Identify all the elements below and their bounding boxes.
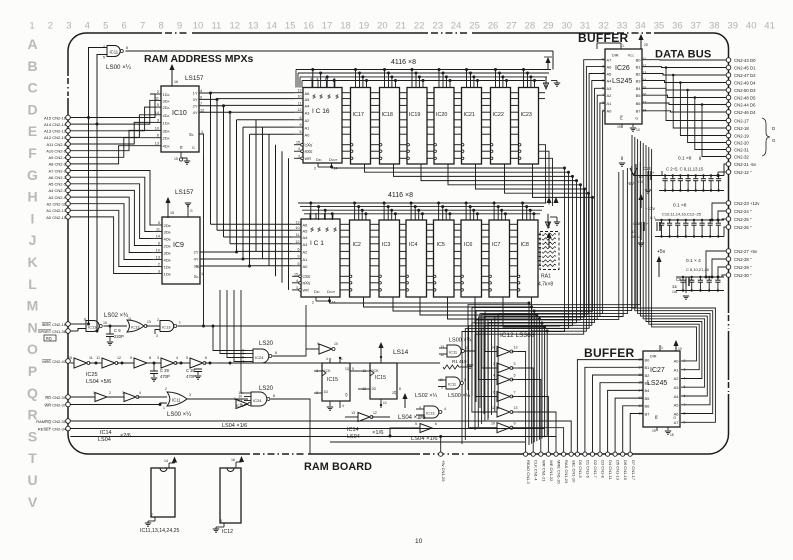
svg-text:CLK CN1-4: CLK CN1-4 [534, 460, 539, 481]
bottom IC block IC11,13,14,24,25 [151, 468, 175, 517]
down arrow -5v [630, 168, 637, 175]
svg-text:≸: ≸ [327, 94, 331, 100]
svg-text:IC4: IC4 [409, 242, 417, 248]
up arrow +5v [658, 258, 660, 277]
svg-text:A0: A0 [305, 132, 311, 137]
wire bank1 to CN2-21 [724, 164, 726, 176]
svg-text:L: L [28, 276, 37, 292]
svg-text:18: 18 [340, 21, 351, 32]
svg-text:LS245: LS245 [612, 78, 632, 85]
junction dot left bus [87, 116, 90, 119]
svg-text:A0: A0 [607, 109, 613, 114]
svg-text:11: 11 [155, 96, 159, 100]
row1 staircase verticals down + left bends to IC12 inputs [462, 168, 565, 444]
RAM IC22 (4116) [491, 88, 511, 165]
svg-text:C 28: C 28 [186, 368, 196, 373]
svg-text:2DA: 2DA [163, 136, 170, 141]
svg-text:5: 5 [158, 221, 160, 225]
svg-text:14: 14 [334, 167, 338, 171]
svg-text:R̅Q̅: R̅Q̅ [45, 337, 52, 341]
svg-text:CN2-47 D2: CN2-47 D2 [734, 73, 756, 78]
svg-text:A9 CN2-4: A9 CN2-4 [48, 155, 66, 160]
svg-text:LS00 ×¼: LS00 ×¼ [106, 64, 132, 71]
svg-text:A6: A6 [303, 223, 309, 228]
svg-text:C10,11,14,16,C12~25: C10,11,14,16,C12~25 [662, 212, 702, 217]
NAND gate IC11 (top left) [107, 46, 120, 57]
flip-flop IC15b [370, 363, 397, 399]
svg-text:IC2: IC2 [353, 242, 361, 248]
svg-text:LS157: LS157 [185, 75, 204, 82]
svg-text:CN2-20: CN2-20 [734, 141, 749, 146]
svg-text:10: 10 [383, 401, 387, 405]
svg-text:CN2-30 ″: CN2-30 ″ [734, 273, 752, 278]
svg-text:A5: A5 [674, 403, 680, 408]
svg-text:13: 13 [147, 320, 151, 324]
svg-text:A0: A0 [303, 264, 309, 269]
svg-text:2DA: 2DA [163, 105, 170, 110]
svg-text:1: 1 [661, 346, 663, 350]
svg-text:A2: A2 [674, 376, 680, 381]
svg-text:/16: /16 [672, 290, 677, 294]
svg-text:A6 CN2-3: A6 CN2-3 [48, 175, 66, 180]
svg-text:READ CN1-3: READ CN1-3 [526, 460, 531, 485]
svg-text:8: 8 [399, 387, 401, 391]
svg-text:2Y: 2Y [193, 103, 198, 108]
svg-text:1: 1 [163, 406, 165, 410]
svg-text:RAMR̅Q̅ CN2-35: RAMR̅Q̅ CN2-35 [36, 419, 67, 424]
svg-text:T: T [28, 450, 37, 466]
svg-text:A7: A7 [607, 58, 613, 63]
svg-text:B3: B3 [636, 78, 642, 83]
svg-text:LS00 ×¼: LS00 ×¼ [167, 412, 192, 418]
svg-text:A7 CN2-1: A7 CN2-1 [48, 168, 66, 173]
svg-text:38: 38 [709, 21, 720, 32]
svg-text:CN2-31: CN2-31 [734, 148, 749, 153]
svg-text:IC11,13,14,24,25: IC11,13,14,24,25 [140, 528, 180, 534]
inverter IC12 gate 4 [497, 392, 510, 402]
svg-text:6: 6 [158, 242, 160, 246]
FF1 top pins [329, 358, 331, 363]
row1 control lines with bubbles [342, 144, 351, 146]
svg-text:F: F [28, 145, 37, 161]
svg-text:DATA BUS: DATA BUS [655, 49, 711, 61]
wires IC26 outputs to CN2 data terminals [642, 59, 726, 61]
svg-text:IC12: IC12 [222, 529, 233, 535]
svg-text:A2: A2 [303, 250, 309, 255]
svg-text:≸: ≸ [310, 227, 314, 233]
svg-text:CN2-29 ″: CN2-29 ″ [734, 265, 752, 270]
svg-text:B: B [27, 58, 37, 74]
svg-text:+: + [690, 278, 692, 282]
svg-text:A5: A5 [305, 97, 311, 102]
svg-text:3: 3 [684, 368, 686, 372]
power arrow IC27 [675, 342, 677, 351]
grid row letters A-V [27, 36, 39, 510]
bottom IC block IC12 [220, 468, 241, 523]
svg-text:16: 16 [174, 80, 178, 84]
svg-text:10: 10 [491, 422, 495, 426]
svg-text:+5v: +5v [657, 249, 666, 255]
svg-text:≸: ≸ [335, 94, 339, 100]
wire long bottom +5v rail [70, 436, 556, 438]
capacitor bank 2 (+12V) [655, 219, 724, 221]
svg-text:9: 9 [514, 422, 516, 426]
svg-text:IC20: IC20 [436, 112, 447, 118]
svg-text:MRE CN2-40: MRE CN2-40 [42, 359, 67, 364]
svg-text:35: 35 [654, 21, 665, 32]
svg-text:4: 4 [493, 374, 495, 378]
svg-text:≸: ≸ [333, 227, 337, 233]
svg-text:A2: A2 [305, 118, 311, 123]
power arrow IC9 pin 16 [167, 199, 169, 218]
svg-text:WR: WR [303, 289, 310, 293]
svg-text:A10 CN2-6: A10 CN2-6 [46, 149, 67, 154]
svg-text:28: 28 [525, 21, 536, 32]
svg-text:10: 10 [415, 538, 423, 545]
control interconnect row1 to row2 [539, 145, 546, 203]
svg-text:CN2-45 D1: CN2-45 D1 [734, 66, 756, 71]
inverter IC14c [420, 424, 432, 433]
svg-text:LS157: LS157 [175, 189, 194, 196]
RAMRQ RESET terminals [66, 419, 71, 424]
svg-text:RAM BOARD: RAM BOARD [304, 461, 372, 473]
svg-text:7: 7 [151, 513, 153, 517]
svg-text:IC6: IC6 [464, 242, 472, 248]
svg-text:LS20: LS20 [259, 341, 274, 347]
RAM IC23 (4116) [519, 88, 539, 165]
svg-text:+: + [663, 222, 665, 226]
inverter IC14a (above IC15) [319, 344, 332, 354]
capacitor C28 470P [197, 363, 199, 370]
svg-text:3Y: 3Y [193, 97, 198, 102]
svg-text:B0: B0 [645, 357, 651, 362]
svg-text:B2: B2 [645, 373, 651, 378]
capacitor bank 3 (+5V) [676, 276, 724, 278]
svg-text:B0: B0 [636, 58, 642, 63]
svg-text:LS245: LS245 [647, 380, 667, 387]
svg-text:LS00 ×¼: LS00 ×¼ [448, 393, 471, 399]
wire IC9 outputs into bus [200, 251, 237, 253]
svg-text:A5: A5 [607, 71, 613, 76]
svg-text:4: 4 [298, 147, 300, 151]
svg-text:≸: ≸ [312, 94, 316, 100]
wire RA1 feed [548, 222, 550, 228]
svg-text:IC13: IC13 [162, 325, 171, 330]
svg-text:8: 8 [464, 378, 466, 382]
svg-text:CN2-17: CN2-17 [734, 119, 749, 124]
svg-text:≸: ≸ [319, 94, 323, 100]
svg-text:5: 5 [298, 262, 300, 266]
svg-text:10: 10 [636, 128, 640, 132]
svg-text:1: 1 [201, 272, 203, 276]
power arrow LS14 [380, 344, 382, 361]
power arrow IC26 [640, 36, 642, 49]
svg-text:8: 8 [220, 519, 222, 523]
svg-text:6: 6 [435, 422, 437, 426]
svg-text:CN2-23 +12v: CN2-23 +12v [734, 201, 760, 206]
svg-text:2DB: 2DB [164, 244, 171, 249]
svg-text:9: 9 [300, 123, 302, 127]
svg-text:8: 8 [149, 356, 151, 360]
svg-text:IC24: IC24 [253, 398, 262, 403]
svg-text:A3: A3 [607, 86, 613, 91]
power arrow mid [404, 395, 406, 408]
svg-text:CN2-49 D4: CN2-49 D4 [734, 81, 756, 86]
svg-text:A3 CN2-9: A3 CN2-9 [48, 195, 66, 200]
svg-text:G: G [673, 416, 676, 420]
svg-text:5: 5 [300, 130, 302, 134]
wire IC24b output right and down [271, 399, 311, 454]
svg-text:C 1: C 1 [650, 216, 656, 220]
svg-text:4DA: 4DA [163, 144, 170, 149]
MRE terminal [66, 359, 71, 364]
inverter IC25 gate 2 [102, 358, 115, 368]
svg-text:2: 2 [312, 301, 314, 305]
svg-text:2Y: 2Y [194, 250, 199, 255]
wire bank2 to CN2 +12v group [726, 201, 731, 206]
svg-text:10: 10 [156, 249, 160, 253]
row2 control lines with bubbles [340, 275, 350, 277]
svg-text:IC3: IC3 [382, 242, 390, 248]
svg-text:A11 CN2-8: A11 CN2-8 [47, 142, 67, 147]
svg-text:16: 16 [231, 458, 235, 462]
svg-text:5: 5 [103, 21, 108, 32]
svg-text:5: 5 [415, 422, 417, 426]
svg-text:A7: A7 [674, 420, 680, 425]
FF2 top/bottom pins [380, 357, 382, 363]
svg-text:×1/6: ×1/6 [372, 430, 383, 436]
inverter IC25f [236, 400, 248, 409]
NAND gate IC13a [86, 321, 99, 332]
svg-text:11: 11 [465, 346, 469, 350]
wire IC24a output to IC14a inverter [273, 349, 307, 356]
svg-text:1: 1 [341, 357, 343, 361]
wire bank3 to CN2 +5v group [726, 249, 731, 254]
svg-text:LS04 ×1/6: LS04 ×1/6 [398, 415, 426, 421]
svg-text:A5 CN2-5: A5 CN2-5 [48, 182, 66, 187]
svg-text:3: 3 [189, 393, 191, 397]
svg-text:13: 13 [296, 220, 300, 224]
svg-text:29: 29 [543, 21, 554, 32]
svg-text:10: 10 [155, 126, 159, 130]
svg-text:A6: A6 [305, 91, 311, 96]
svg-text:3: 3 [296, 286, 298, 290]
RAM IC1 (4116) [301, 219, 340, 297]
row1 rail left elbows [295, 70, 297, 88]
svg-text:A2: A2 [607, 93, 613, 98]
svg-text:9: 9 [130, 356, 132, 360]
svg-text:11: 11 [156, 228, 160, 232]
svg-text:1: 1 [29, 21, 34, 32]
wire drops to LS20 IC24b inputs [241, 290, 244, 393]
svg-text:1: 1 [93, 391, 95, 395]
svg-text:IC23: IC23 [521, 112, 532, 118]
svg-text:IC14: IC14 [347, 427, 359, 433]
svg-text:12: 12 [200, 108, 204, 112]
svg-text:CN2-18: CN2-18 [734, 126, 749, 131]
svg-text:2: 2 [157, 318, 159, 322]
svg-text:4116 ×8: 4116 ×8 [388, 192, 413, 199]
svg-text:2: 2 [165, 387, 167, 391]
svg-text:B6: B6 [645, 404, 651, 409]
svg-text:13: 13 [155, 142, 159, 146]
svg-text:MRE CN1-20: MRE CN1-20 [557, 460, 562, 485]
svg-text:CN2-19: CN2-19 [734, 134, 749, 139]
svg-text:11: 11 [96, 356, 100, 360]
svg-text:15: 15 [174, 157, 178, 161]
svg-text:C 9: C 9 [114, 328, 121, 333]
svg-text:B1: B1 [645, 365, 651, 370]
row2 data output staircase [330, 301, 530, 445]
svg-text:2: 2 [109, 391, 111, 395]
svg-text:2D: 2D [372, 387, 377, 391]
svg-text:1: 1 [622, 44, 624, 48]
svg-text:IC11: IC11 [449, 350, 458, 355]
svg-text:12: 12 [298, 108, 302, 112]
svg-text:SA: SA [189, 132, 194, 137]
svg-text:E: E [28, 123, 37, 139]
svg-text:B2: B2 [636, 71, 642, 76]
svg-text:16: 16 [643, 93, 647, 97]
wire IC13c output right [178, 325, 561, 327]
inverter IC25 gate 4 [161, 358, 174, 368]
inverter IC12 gate 5 [497, 407, 510, 417]
svg-text:WR: WR [305, 157, 312, 161]
svg-text:K: K [27, 254, 37, 270]
svg-text:D2 CN1-7: D2 CN1-7 [593, 460, 598, 479]
IC12 outputs descend to CN1 terminals [518, 352, 526, 453]
svg-text:1DA: 1DA [163, 92, 170, 97]
wire IC11 inputs from left bus [89, 48, 108, 325]
svg-text:DOUT: DOUT [327, 290, 336, 294]
svg-text:SEL CN1-10: SEL CN1-10 [572, 460, 577, 483]
svg-text:RES̅E̅T̅ CN2-34: RES̅E̅T̅ CN2-34 [38, 427, 67, 432]
svg-text:C: C [27, 80, 37, 96]
flip-flop IC15a [322, 363, 350, 401]
RD WR terminals [66, 395, 71, 400]
svg-text:G: G [192, 146, 195, 150]
CN2 ground group terminals [726, 118, 731, 123]
svg-text:R1 410: R1 410 [452, 359, 467, 364]
svg-text:8: 8 [273, 394, 275, 398]
svg-text:2: 2 [158, 263, 160, 267]
wire bundle address inputs to IC10 [70, 94, 155, 118]
svg-text:IC15: IC15 [375, 375, 386, 381]
svg-text:14: 14 [266, 21, 277, 32]
riser RAMRQ to SEL terminal [560, 421, 571, 452]
svg-text:10: 10 [334, 342, 338, 346]
svg-text:470P: 470P [186, 374, 196, 379]
svg-text:DOUT: DOUT [329, 158, 338, 162]
RAM IC3 (4116) [379, 220, 400, 297]
RAM IC21 (4116) [462, 88, 482, 165]
RAM IC17 (4116) [351, 88, 371, 165]
svg-text:41: 41 [764, 21, 775, 32]
svg-text:A6: A6 [607, 64, 613, 69]
svg-text:IC25: IC25 [236, 404, 244, 408]
svg-text:A: A [27, 36, 37, 52]
svg-text:IC19: IC19 [409, 112, 420, 118]
svg-text:12: 12 [373, 411, 377, 415]
svg-text:13: 13 [351, 411, 355, 415]
svg-text:CN2-44 D6: CN2-44 D6 [734, 103, 756, 108]
svg-text:IC11: IC11 [172, 398, 181, 403]
svg-text:G: G [190, 209, 193, 213]
svg-text:IC14: IC14 [100, 430, 112, 436]
row1 inter-chip address lines [342, 92, 351, 94]
RAM IC6 (4116) [461, 220, 482, 297]
svg-text:CN2-48 D5: CN2-48 D5 [734, 96, 756, 101]
svg-text:14: 14 [156, 235, 160, 239]
electrolytic C8 [682, 273, 684, 282]
svg-text:×2/6: ×2/6 [120, 433, 131, 439]
svg-text:CN2-50 D3: CN2-50 D3 [734, 88, 756, 93]
bracket D G [762, 118, 770, 156]
svg-text:B5: B5 [645, 396, 651, 401]
FF1 bottom pins [329, 401, 331, 406]
svg-text:O: O [27, 341, 38, 357]
svg-text:3: 3 [298, 154, 300, 158]
RAM IC20 (4116) [434, 88, 454, 165]
svg-text:A1: A1 [674, 368, 680, 373]
svg-text:IC22: IC22 [493, 112, 504, 118]
rail terminal arrows row1 [547, 59, 549, 70]
svg-text:19: 19 [617, 125, 621, 129]
svg-text:CN2-24 ″: CN2-24 ″ [734, 209, 752, 214]
svg-text:LS02 ×¼: LS02 ×¼ [415, 393, 438, 399]
svg-text:A8 CN2-2: A8 CN2-2 [48, 162, 66, 167]
RAM IC18 (4116) [380, 88, 400, 165]
svg-text:27: 27 [506, 21, 517, 32]
svg-text:5: 5 [684, 385, 686, 389]
svg-text:11: 11 [89, 356, 93, 360]
svg-text:4.7k×8: 4.7k×8 [538, 282, 553, 288]
svg-text:14: 14 [332, 301, 336, 305]
ground stub IC9 [187, 205, 189, 217]
svg-text:A4: A4 [674, 394, 680, 399]
svg-text:V: V [28, 494, 38, 510]
svg-text:3: 3 [157, 118, 159, 122]
IC16 bottom pins [317, 163, 319, 167]
capacitor C9 220P [104, 326, 111, 334]
svg-text:4DB: 4DB [164, 258, 171, 263]
RAM IC19 (4116) [407, 88, 427, 165]
bundle: gates area verticals (left) [212, 326, 214, 347]
RAM IC8 (4116) [518, 220, 539, 297]
svg-text:15: 15 [285, 21, 296, 32]
svg-text:R̅D̅ CN2-39: R̅D̅ CN2-39 [45, 395, 67, 400]
svg-text:IC26: IC26 [615, 65, 630, 72]
row2 top supply rails [298, 202, 546, 204]
buffer IC27 LS245 [643, 351, 680, 427]
svg-text:5: 5 [186, 356, 188, 360]
svg-text:4116 ×8: 4116 ×8 [391, 59, 416, 66]
svg-text:5: 5 [103, 56, 105, 60]
svg-text:EL: EL [196, 265, 200, 269]
svg-text:M: M [27, 298, 39, 314]
wire bus IC10/IC9 outputs to RAM rows [210, 93, 212, 225]
svg-text:0.1 ×8: 0.1 ×8 [678, 156, 692, 162]
svg-text:B3: B3 [645, 381, 651, 386]
RAM IC7 (4116) [489, 220, 510, 297]
svg-text:18: 18 [670, 433, 674, 437]
NAND IC11a [447, 345, 461, 357]
svg-text:11: 11 [128, 317, 132, 321]
wire drops from MPX bus to LS20 gates [213, 326, 246, 351]
svg-text:IC7: IC7 [492, 242, 500, 248]
board outline border (chain line) [68, 33, 729, 454]
inverter IC12 gate 3 [497, 375, 510, 385]
